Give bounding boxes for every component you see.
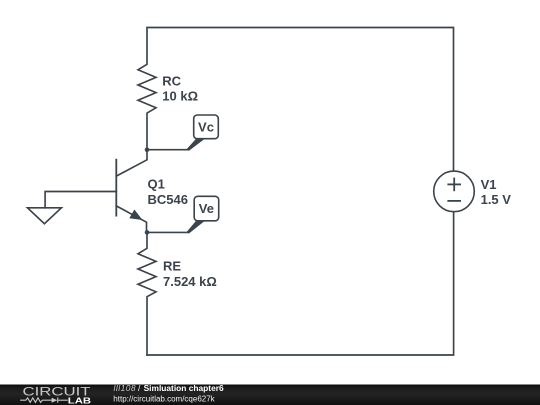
svg-text:7.524 kΩ: 7.524 kΩ xyxy=(163,274,217,289)
svg-text:Q1: Q1 xyxy=(148,176,165,191)
svg-text:http://circuitlab.com/cqe627k: http://circuitlab.com/cqe627k xyxy=(113,395,215,404)
svg-text:RC: RC xyxy=(162,74,181,89)
svg-text:Ve: Ve xyxy=(199,201,214,216)
svg-text:lll108/Simluation chapter6: lll108/Simluation chapter6 xyxy=(114,383,224,393)
svg-text:LAB: LAB xyxy=(68,396,91,405)
svg-text:BC546: BC546 xyxy=(148,192,188,207)
svg-text:V1: V1 xyxy=(481,177,497,192)
svg-text:RE: RE xyxy=(163,258,181,273)
svg-text:10 kΩ: 10 kΩ xyxy=(162,89,198,104)
svg-text:1.5 V: 1.5 V xyxy=(481,192,512,207)
svg-text:Vc: Vc xyxy=(198,119,214,134)
